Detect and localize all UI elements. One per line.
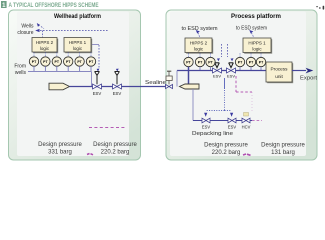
to ESD arrow left [196,30,200,34]
signal wire to wells closure [40,27,108,38]
depacking HCV [242,118,250,123]
svg-text:logic: logic [194,47,204,52]
svg-text:Depacking line: Depacking line [192,131,233,137]
wells closure arrow lower [35,29,39,32]
svg-text:ESV: ESV [93,91,102,96]
export line [292,70,306,72]
figure number badge [1,1,7,9]
svg-text:From: From [14,64,26,70]
valve ESV1 (wellhead) [93,84,102,89]
svg-text:Process: Process [271,67,289,72]
svg-text:Design pressure: Design pressure [261,143,305,149]
svg-text:220.2 barg: 220.2 barg [212,150,241,156]
HIPPS valve 2 (process) [227,68,236,73]
depacking route (magenta) [236,76,262,121]
riser ESDV [166,84,173,88]
actuator ESV1 [95,72,100,85]
signal wire HIPS1 to ESV1 [92,44,99,46]
HIPPS valve 1 (process) [213,68,222,73]
riser ESDV actuator [166,71,172,84]
svg-text:Design pressure: Design pressure [93,142,137,148]
svg-text:HIPPS 1: HIPPS 1 [248,41,266,46]
process platform inner card [170,12,306,157]
svg-text:to ESD system: to ESD system [236,26,267,32]
signal arrow to ESV2 [116,69,119,72]
svg-text:logic: logic [73,46,83,51]
to ESD arrow right [249,30,253,34]
svg-text:ESV: ESV [213,73,221,78]
svg-text:ESV: ESV [228,125,236,130]
arrow to depacking ESV1 [204,113,207,117]
process main line [177,70,266,72]
HIPS 1 logic box (process) [243,38,272,54]
transmitter stems (process) [200,67,261,71]
depacking line [193,120,252,122]
svg-text:HIPPS 1: HIPPS 1 [69,40,87,45]
pig receiver [180,84,200,89]
svg-text:Design pressure: Design pressure [204,143,248,149]
svg-text:HIPPS 2: HIPPS 2 [36,40,54,45]
pressure transmitters PT (wellhead) [29,57,95,66]
svg-text:ESV: ESV [113,91,122,96]
transmitter stems [34,66,91,71]
svg-text:220.2 barg: 220.2 barg [101,150,130,156]
HIPS 2 logic box (wellhead) [32,38,58,54]
depacking signal line [206,78,232,111]
svg-text:wells: wells [15,70,27,76]
HIPS 1 logic box (wellhead) [64,38,92,54]
actuator ESV2 [115,72,120,85]
depacking ESV1 [202,118,210,123]
bypass drop to sealine [176,71,178,87]
instrument signal stubs (process) [189,54,262,58]
svg-text:unit: unit [275,74,283,79]
depacking ESV2 [228,118,236,123]
page artifact marks top-right [316,6,324,10]
svg-text:Export: Export [300,76,318,82]
svg-text:Design pressure: Design pressure [38,142,82,148]
actuator HIPPS valve 2 [229,63,234,68]
wells manifold line [28,71,92,73]
svg-text:HCV: HCV [242,125,251,130]
wellhead platform panel [9,10,141,160]
actuator HIPPS valve 1 [215,63,220,68]
svg-text:HIPPS 2: HIPPS 2 [190,41,208,46]
pig launcher [49,83,70,90]
wells closure arrow upper [37,23,40,27]
valve ESV2 (wellhead) [113,84,122,89]
process unit box [266,62,293,83]
svg-text:Wells: Wells [21,24,34,30]
svg-text:logic: logic [252,47,262,52]
hipps protected marker (magenta dashes) [89,127,125,129]
signal wires to HIPPS valves (process) [222,44,228,57]
svg-text:Process platform: Process platform [231,14,281,20]
riser from receiver [188,67,190,85]
instrument signal stubs (wellhead) [34,53,91,58]
HCV solenoid [244,113,249,117]
export arrow [306,68,314,74]
pressure transmitters PT (process) [184,57,266,66]
sealine pipe [70,86,166,88]
manifold drop to pipeline [91,72,93,87]
svg-text:Sealine: Sealine [145,80,166,86]
svg-text:A TYPICAL OFFSHORE HIPPS SCHEM: A TYPICAL OFFSHORE HIPPS SCHEME [9,2,99,9]
magenta mark left [87,154,93,155]
svg-text:closure: closure [17,30,33,36]
depacking branch from receiver [192,89,194,121]
HIPS 2 logic box (process) [185,38,213,54]
arrow to depacking ESV2 [230,113,233,117]
svg-text:Wellhead platform: Wellhead platform [54,14,101,20]
wellhead platform inner card [17,12,129,157]
svg-text:ESV: ESV [227,73,235,78]
svg-text:ESV: ESV [202,125,210,130]
svg-text:331 barg: 331 barg [48,150,72,156]
svg-text:logic: logic [40,46,50,51]
svg-text:to ESD system: to ESD system [182,26,218,32]
process platform panel [166,10,317,160]
svg-text:131 barg: 131 barg [271,150,295,156]
magenta mark right [243,154,251,155]
